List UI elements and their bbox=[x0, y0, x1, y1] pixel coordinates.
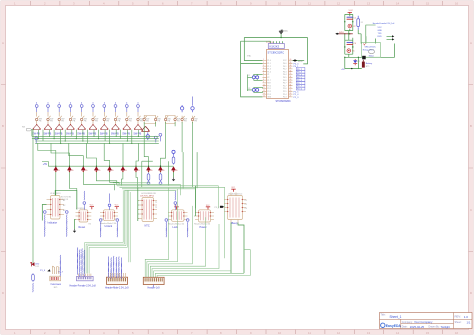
svg-text:O2: O2 bbox=[245, 204, 248, 206]
driver Q3 Lock bbox=[168, 210, 188, 229]
svg-text:Drawn By:: Drawn By: bbox=[429, 326, 440, 329]
ground below D10 bbox=[173, 172, 175, 177]
LED D7 bbox=[134, 167, 140, 173]
net port left of Beep bbox=[215, 206, 225, 209]
LED D8 bbox=[147, 167, 153, 173]
switch SW15 bbox=[181, 116, 187, 123]
svg-text:P3.1: P3.1 bbox=[267, 88, 271, 90]
svg-text:TMB12A05: TMB12A05 bbox=[50, 283, 62, 286]
VCC flag right of Q2 bbox=[115, 205, 119, 210]
svg-text:27: 27 bbox=[290, 96, 292, 98]
pin header P1 above MCU bbox=[266, 42, 284, 49]
svg-text:TXD: TXD bbox=[378, 33, 383, 35]
svg-text:32: 32 bbox=[290, 82, 292, 84]
svg-text:VCC: VCC bbox=[349, 10, 354, 12]
svg-text:12: 12 bbox=[263, 90, 265, 92]
svg-text:28: 28 bbox=[290, 93, 292, 95]
junction dots on rail bbox=[55, 166, 161, 167]
extra key SW17 with down flag bbox=[141, 126, 149, 140]
push button SW8 bbox=[111, 102, 121, 135]
svg-text:40: 40 bbox=[290, 59, 292, 61]
net flag above SW15 bbox=[180, 105, 183, 112]
svg-text:SRD-05VDC: SRD-05VDC bbox=[365, 47, 377, 49]
svg-text:P3.2: P3.2 bbox=[267, 91, 271, 93]
svg-text:P1.3: P1.3 bbox=[267, 69, 271, 71]
VCC flag left of Q2 bbox=[90, 205, 94, 210]
svg-text:2025-02-25: 2025-02-25 bbox=[410, 325, 425, 329]
VCC flag above Power bbox=[206, 205, 210, 210]
svg-text:11: 11 bbox=[308, 1, 311, 5]
wire bundle nested L bbox=[145, 188, 250, 278]
push button SW7 bbox=[100, 102, 110, 135]
junction dots bbox=[38, 136, 139, 144]
svg-text:A: A bbox=[2, 41, 4, 45]
LED D1 bbox=[54, 167, 60, 173]
crystal X1 bbox=[248, 74, 263, 80]
svg-text:K1K2K3: K1K2K3 bbox=[270, 44, 280, 48]
svg-text:P0.6: P0.6 bbox=[283, 80, 287, 82]
LED D9 bbox=[159, 167, 165, 173]
LED D5 bbox=[108, 167, 114, 173]
svg-text:C: C bbox=[2, 208, 4, 212]
svg-text:16: 16 bbox=[455, 331, 459, 335]
ground arrow at buzzer bbox=[47, 269, 50, 271]
wire column drops bbox=[31, 130, 33, 137]
svg-text:VCC: VCC bbox=[284, 31, 289, 33]
svg-text:Reset: Reset bbox=[79, 226, 86, 229]
driver Q2 Unlock bbox=[100, 210, 118, 228]
svg-text:RST: RST bbox=[267, 83, 270, 85]
+5V rail bbox=[48, 165, 173, 167]
switch SW14 bbox=[174, 116, 180, 123]
svg-text:Sheet:: Sheet: bbox=[455, 321, 462, 324]
driver Q4 Power bbox=[194, 210, 214, 229]
svg-text:37: 37 bbox=[290, 68, 292, 70]
VCC flag above MCU bbox=[279, 30, 288, 33]
svg-text:P0_0: P0_0 bbox=[294, 63, 300, 65]
rotated net label above Q2 bbox=[108, 194, 111, 210]
push button SW4 bbox=[66, 102, 76, 135]
VCC flag above Lock bbox=[174, 205, 178, 210]
svg-text:STC89C52RC: STC89C52RC bbox=[276, 100, 292, 103]
wire chain tan bbox=[144, 116, 192, 124]
net flag left end of bus bbox=[35, 137, 38, 143]
connector J3 1x9 bbox=[105, 273, 129, 290]
wire bus row4 bbox=[35, 142, 159, 144]
push button SW5 bbox=[77, 102, 87, 135]
rotated labels below Q2 sides bbox=[99, 219, 102, 222]
rotated labels above J2 bbox=[77, 248, 84, 278]
wire Beep bottom drops bbox=[231, 223, 244, 274]
svg-text:D: D bbox=[470, 291, 472, 295]
rotated labels below Lock sides bbox=[165, 219, 168, 222]
LED D4 bbox=[94, 167, 100, 173]
wire Power left bbox=[195, 186, 196, 216]
svg-text:B: B bbox=[470, 124, 472, 128]
net flag VCC right of MCU bbox=[293, 59, 305, 63]
svg-text:36: 36 bbox=[290, 70, 292, 72]
LED D12 bbox=[353, 59, 360, 65]
svg-text:B: B bbox=[2, 124, 4, 128]
net flag above SW16 with rotated label bbox=[191, 97, 194, 113]
svg-text:Title:: Title: bbox=[381, 313, 386, 316]
LED D2 bbox=[68, 167, 74, 173]
junction dots power chain bbox=[344, 21, 359, 58]
LED D11 bbox=[30, 262, 40, 268]
svg-text:14: 14 bbox=[263, 96, 265, 98]
svg-text:Y1: Y1 bbox=[248, 75, 250, 77]
VCC flag red bbox=[348, 10, 354, 15]
svg-text:10: 10 bbox=[278, 1, 282, 5]
svg-text:Header-Female-2.54_1x8: Header-Female-2.54_1x8 bbox=[70, 285, 97, 288]
svg-text:STC89C52RC: STC89C52RC bbox=[268, 51, 285, 55]
wire band horizontals bbox=[113, 183, 225, 258]
svg-text:P1.2: P1.2 bbox=[267, 66, 271, 68]
switch SW12 bbox=[154, 116, 160, 123]
svg-text:P2.7: P2.7 bbox=[283, 85, 287, 87]
svg-text:Your Company: Your Company bbox=[414, 320, 433, 324]
svg-text:P1.4: P1.4 bbox=[267, 71, 271, 73]
wire bus row3 bbox=[35, 140, 159, 142]
push button SW1 bbox=[32, 102, 42, 135]
svg-text:P1_5: P1_5 bbox=[40, 270, 46, 272]
svg-text:C2: C2 bbox=[353, 26, 355, 28]
capacitor C4 bbox=[347, 42, 356, 45]
EasyEDA logo bbox=[381, 323, 402, 328]
svg-text:30: 30 bbox=[290, 87, 292, 89]
connector J4 1x9 bbox=[143, 277, 164, 289]
switch SW11 bbox=[143, 116, 149, 123]
left pins bbox=[263, 61, 293, 97]
driver U5 Beep bbox=[224, 193, 247, 225]
svg-text:P3.0: P3.0 bbox=[267, 85, 271, 87]
wire diode drops below bbox=[56, 172, 161, 210]
svg-text:B3: B3 bbox=[63, 210, 65, 212]
svg-text:12: 12 bbox=[337, 1, 341, 5]
driver U4 NTC bbox=[139, 193, 158, 228]
svg-text:C4: C4 bbox=[354, 43, 356, 45]
svg-text:O1: O1 bbox=[245, 200, 248, 202]
svg-text:Beep: Beep bbox=[232, 222, 238, 225]
driver U2 Indicator bbox=[47, 192, 72, 224]
svg-text:14: 14 bbox=[396, 1, 400, 5]
push button SW10 bbox=[133, 102, 143, 135]
switch SW13 bbox=[164, 116, 170, 123]
push button SW9 bbox=[122, 102, 132, 135]
svg-text:Header-1x9: Header-1x9 bbox=[148, 287, 161, 290]
wire U2 left bbox=[42, 205, 46, 221]
svg-text:P3_7: P3_7 bbox=[215, 207, 221, 209]
net labels right of MCU bbox=[294, 63, 303, 99]
svg-text:SW-K: SW-K bbox=[339, 32, 345, 34]
svg-text:P0.3: P0.3 bbox=[283, 71, 287, 73]
svg-text:P2_3: P2_3 bbox=[294, 97, 300, 99]
svg-text:P2.4: P2.4 bbox=[283, 94, 287, 96]
svg-text:+5V: +5V bbox=[341, 69, 345, 71]
VCC flag above Beep bbox=[231, 187, 235, 192]
svg-text:P0.5: P0.5 bbox=[283, 77, 287, 79]
svg-text:T2: T2 bbox=[155, 207, 157, 209]
wire U2 top to U3 bbox=[55, 190, 77, 209]
svg-text:P1.7: P1.7 bbox=[267, 80, 271, 82]
resistor network right of U2 bbox=[66, 211, 69, 237]
net flag right end of bus bbox=[159, 133, 162, 141]
svg-text:13: 13 bbox=[263, 93, 265, 95]
LED D6 bbox=[121, 167, 127, 173]
title block bbox=[380, 313, 473, 329]
connector J2 1x8 bbox=[70, 274, 97, 288]
svg-text:O3: O3 bbox=[245, 208, 248, 210]
svg-text:35: 35 bbox=[290, 73, 292, 75]
rotated net label above Lock bbox=[174, 191, 177, 210]
wire bus row1 bbox=[32, 135, 159, 137]
svg-text:REV:: REV: bbox=[455, 315, 462, 319]
push button SW3 bbox=[55, 102, 65, 135]
svg-text:P0.7: P0.7 bbox=[283, 83, 287, 85]
svg-text:NTC: NTC bbox=[145, 225, 150, 228]
crystal caps bbox=[248, 87, 263, 92]
wire verticals below bus + mesh bbox=[32, 122, 198, 264]
LED D3 bbox=[81, 167, 87, 173]
wire loop1 bbox=[345, 14, 353, 30]
svg-text:VCC: VCC bbox=[298, 61, 303, 63]
wire band vertical to conn2 + elbows to conn1 bbox=[85, 190, 131, 273]
svg-text:P0.2: P0.2 bbox=[283, 69, 287, 71]
svg-text:P3.3: P3.3 bbox=[267, 94, 271, 96]
svg-text:P2.6: P2.6 bbox=[283, 88, 287, 90]
svg-text:GND: GND bbox=[378, 30, 383, 32]
svg-text:38: 38 bbox=[290, 65, 292, 67]
svg-text:Unlock: Unlock bbox=[105, 225, 113, 228]
svg-text:12: 12 bbox=[337, 331, 341, 335]
ground below Reset bbox=[75, 220, 76, 230]
svg-text:B2: B2 bbox=[63, 205, 65, 207]
svg-text:RXD: RXD bbox=[378, 36, 383, 38]
LED D10 power bbox=[172, 167, 178, 173]
svg-text:Twilight: Twilight bbox=[441, 325, 451, 329]
svg-text:10K NTC-MF52: 10K NTC-MF52 bbox=[140, 196, 155, 198]
svg-text:C5: C5 bbox=[352, 51, 354, 53]
svg-text:Header-Male-2.54_1x9: Header-Male-2.54_1x9 bbox=[105, 287, 129, 290]
svg-text:C: C bbox=[470, 208, 472, 212]
svg-text:15: 15 bbox=[426, 331, 430, 335]
svg-text:29: 29 bbox=[290, 90, 292, 92]
svg-text:11: 11 bbox=[263, 87, 265, 89]
svg-text:D: D bbox=[2, 291, 4, 295]
svg-text:15: 15 bbox=[426, 1, 430, 5]
driver Q1 Reset bbox=[76, 208, 92, 229]
svg-text:X2: X2 bbox=[267, 77, 269, 79]
pin numbers bbox=[263, 59, 291, 97]
svg-text:B1: B1 bbox=[63, 200, 65, 202]
rotated labels above J3 bbox=[108, 256, 121, 279]
svg-text:X1: X1 bbox=[267, 74, 269, 76]
matrix bus wires bbox=[32, 130, 159, 144]
svg-text:P0.4: P0.4 bbox=[283, 74, 287, 76]
resistor R11 below D9 bbox=[159, 173, 162, 182]
svg-text:Date:: Date: bbox=[402, 326, 408, 329]
wire loop2 bbox=[345, 30, 395, 69]
svg-text:C1: C1 bbox=[354, 18, 356, 20]
svg-text:T1: T1 bbox=[155, 202, 157, 204]
capacitor C1 bbox=[347, 17, 356, 19]
resistor R12 above D10 bbox=[172, 156, 175, 165]
svg-text:14: 14 bbox=[396, 331, 400, 335]
svg-text:Company:: Company: bbox=[402, 321, 413, 324]
svg-text:Indicator: Indicator bbox=[48, 221, 58, 224]
svg-text:P0.1: P0.1 bbox=[283, 66, 287, 68]
capacitor C5 electrolytic bbox=[347, 49, 354, 53]
rotated label right of buzzer bbox=[59, 255, 61, 264]
resistor R10 below D8 bbox=[147, 173, 150, 182]
svg-text:10: 10 bbox=[278, 331, 282, 335]
svg-text:P2_4: P2_4 bbox=[294, 94, 300, 96]
resistor R13 below LED bbox=[32, 273, 35, 282]
svg-text:P0.0: P0.0 bbox=[283, 63, 287, 65]
svg-text:F1: F1 bbox=[361, 22, 363, 24]
wire bus row2 bbox=[32, 138, 159, 140]
svg-text:EasyEDA: EasyEDA bbox=[386, 324, 402, 328]
svg-text:1/1: 1/1 bbox=[467, 320, 471, 324]
svg-text:Sheet_1: Sheet_1 bbox=[390, 315, 402, 319]
header female 1x4 bbox=[366, 22, 395, 43]
capacitor C2 electrolytic bbox=[348, 24, 355, 28]
svg-text:33: 33 bbox=[290, 79, 292, 81]
svg-text:13: 13 bbox=[367, 331, 371, 335]
svg-text:1 2 3 4 5: 1 2 3 4 5 bbox=[266, 42, 273, 44]
svg-text:31: 31 bbox=[290, 84, 292, 86]
wire NTC left trunk bbox=[137, 188, 140, 222]
svg-text:P2_5: P2_5 bbox=[294, 91, 300, 93]
resistor network left of U2 bbox=[44, 211, 47, 237]
svg-text:Battery: Battery bbox=[366, 62, 372, 65]
svg-text:11: 11 bbox=[308, 331, 311, 335]
switch SW16 bbox=[191, 116, 197, 123]
svg-text:13: 13 bbox=[367, 1, 371, 5]
svg-text:U4 DS18B20 R8: U4 DS18B20 R8 bbox=[141, 193, 157, 195]
battery BT1 bbox=[362, 60, 372, 68]
wire VCC rails around MCU bbox=[241, 34, 308, 97]
crystal Y2 blue capsule bbox=[357, 16, 363, 30]
svg-text:P2.3: P2.3 bbox=[283, 97, 287, 99]
buzzer B1 bbox=[50, 266, 62, 289]
svg-text:1.0: 1.0 bbox=[464, 315, 469, 319]
svg-text:39: 39 bbox=[290, 62, 292, 64]
push button SW6 bbox=[88, 102, 98, 135]
svg-text:10: 10 bbox=[263, 84, 265, 86]
left net port bbox=[22, 126, 32, 131]
net flag mid bus bbox=[154, 136, 157, 142]
red bus wire bbox=[335, 32, 353, 35]
svg-text:P1.1: P1.1 bbox=[267, 63, 271, 65]
svg-text:VCC: VCC bbox=[378, 27, 383, 29]
svg-text:16: 16 bbox=[455, 1, 459, 5]
svg-text:+5V: +5V bbox=[43, 163, 48, 166]
svg-text:P2.5: P2.5 bbox=[283, 91, 287, 93]
relay module box bbox=[362, 43, 381, 60]
svg-text:Header-Female-2.54_1x4: Header-Female-2.54_1x4 bbox=[373, 22, 395, 25]
svg-text:A: A bbox=[470, 41, 472, 45]
svg-text:R5: R5 bbox=[89, 224, 91, 226]
svg-text:XTAL: XTAL bbox=[247, 55, 251, 58]
svg-text:34: 34 bbox=[290, 76, 292, 78]
pin name stubs inside bbox=[267, 60, 287, 98]
MCU U1 STC89C52RC bbox=[263, 50, 293, 104]
svg-text:U5 ULN2003 x2: U5 ULN2003 x2 bbox=[228, 194, 243, 196]
svg-text:P1.0: P1.0 bbox=[267, 60, 271, 62]
svg-text:Motor: Motor bbox=[369, 55, 374, 58]
push button SW2 bbox=[43, 102, 53, 135]
svg-text:D12: D12 bbox=[357, 61, 360, 63]
